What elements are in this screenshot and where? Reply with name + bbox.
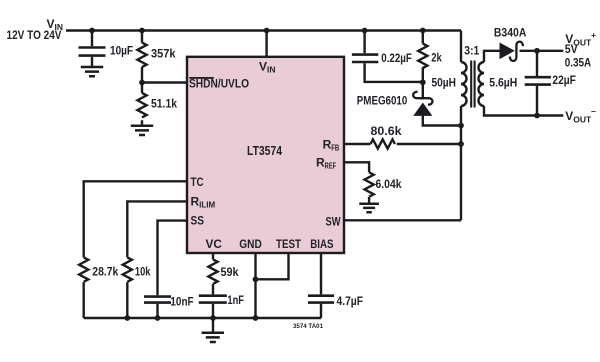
svg-text:PMEG6010: PMEG6010 <box>357 94 408 108</box>
svg-text:GND: GND <box>239 237 262 251</box>
node vout- cap <box>534 113 540 119</box>
resistor R 59k <box>208 259 217 283</box>
node rail 10nF <box>155 315 161 321</box>
capacitor C 0.22uF <box>352 55 378 62</box>
resistor R 357k <box>137 43 146 67</box>
wire secondary top lead <box>484 51 500 62</box>
wire secondary bottom lead <box>484 106 563 116</box>
svg-text:B340A: B340A <box>494 26 527 40</box>
wire 0.22uF branch <box>365 31 423 82</box>
svg-text:0.22µF: 0.22µF <box>381 51 412 65</box>
svg-text:80.6k: 80.6k <box>371 124 402 138</box>
node test-gnd <box>253 276 259 282</box>
svg-text:2k: 2k <box>431 51 442 65</box>
resistor R 2k <box>418 44 427 68</box>
resistor R 51.1k <box>137 93 146 117</box>
node rail 10k <box>124 315 130 321</box>
node rfb-sw <box>458 141 464 147</box>
svg-text:10nF: 10nF <box>170 295 193 309</box>
svg-text:6.04k: 6.04k <box>376 177 402 191</box>
resistor R 6.04k <box>365 172 374 196</box>
node snubber tap <box>362 28 368 34</box>
wire SS cap to rail <box>156 304 158 318</box>
svg-text:0.35A: 0.35A <box>565 55 592 69</box>
wire 2k stubs <box>422 31 424 83</box>
svg-text:28.7k: 28.7k <box>92 265 118 279</box>
ground under 51.1k <box>131 126 153 135</box>
wire RILIM feed <box>127 201 187 318</box>
wire SHDN feed <box>142 81 187 83</box>
wire TC feed <box>84 181 187 318</box>
svg-text:10k: 10k <box>135 265 151 279</box>
wire right bus <box>460 106 462 220</box>
svg-text:50µH: 50µH <box>432 76 457 90</box>
wire bottom rail <box>84 317 321 319</box>
resistor R 28.7k <box>79 257 88 281</box>
svg-text:VC: VC <box>206 237 223 251</box>
wire diode stubs <box>423 82 461 125</box>
node diode-sw <box>458 123 464 129</box>
svg-text:4.7µF: 4.7µF <box>337 294 364 308</box>
node uvlo divider <box>139 80 145 86</box>
wire primary top lead <box>460 31 462 63</box>
svg-text:357k: 357k <box>151 47 176 61</box>
svg-text:3574 TA01: 3574 TA01 <box>293 323 323 330</box>
svg-text:59k: 59k <box>221 265 239 279</box>
wire RREF feed <box>344 162 369 202</box>
wire GND branch <box>254 253 256 318</box>
wire 10uF to ground <box>91 57 93 66</box>
wire BIAS branch <box>320 253 322 318</box>
capacitor C 1nF <box>199 296 227 303</box>
svg-text:12V TO 24V: 12V TO 24V <box>7 28 62 42</box>
svg-text:22µF: 22µF <box>552 73 576 87</box>
wire 357k stubs <box>141 31 143 125</box>
wire 22uF branch <box>536 51 538 116</box>
svg-text:5.6µH: 5.6µH <box>489 76 517 90</box>
svg-text:LT3574: LT3574 <box>247 143 283 158</box>
node snubber bottom <box>420 79 426 85</box>
wire top rail <box>66 29 461 31</box>
svg-text:BIAS: BIAS <box>310 237 333 251</box>
capacitor C 22uF <box>525 77 551 84</box>
resistor R 10k <box>123 257 132 281</box>
wire VIN pin drop <box>265 31 267 57</box>
IC U1 LT3574 body <box>187 57 344 253</box>
wire VC branch <box>212 253 214 318</box>
transformer T1 primary winding 50uH <box>461 62 467 106</box>
svg-text:SS: SS <box>191 214 205 228</box>
node 2k tap <box>420 28 426 34</box>
ground under bottom rail <box>202 333 224 342</box>
capacitor C 10uF <box>79 48 106 56</box>
node 10uF tap <box>89 28 95 34</box>
diode D1 PMEG6010 <box>413 92 432 116</box>
svg-text:1nF: 1nF <box>227 293 244 307</box>
wire TEST branch <box>256 253 289 279</box>
wire RFB feed <box>344 143 461 145</box>
svg-text:SW: SW <box>326 215 342 229</box>
ground under 6.04k <box>359 204 379 213</box>
svg-text:TEST: TEST <box>276 237 302 251</box>
node 357k tap <box>139 28 145 34</box>
diode D2 B340A <box>500 42 523 61</box>
capacitor C 10nF <box>144 297 171 303</box>
resistor R 80.6k <box>371 139 395 148</box>
ground under 10uF <box>81 67 103 76</box>
svg-text:51.1k: 51.1k <box>151 97 177 111</box>
svg-text:10µF: 10µF <box>110 44 133 58</box>
wire SS feed <box>158 221 188 296</box>
svg-text:TC: TC <box>191 175 204 189</box>
node vout+ cap <box>534 48 540 54</box>
node VIN pin tap <box>264 28 270 34</box>
transformer T1 core <box>471 61 474 108</box>
transformer T1 secondary winding 5.6uH <box>479 62 485 106</box>
svg-text:5V: 5V <box>565 42 578 56</box>
capacitor C 4.7uF <box>308 296 334 303</box>
wire SW feed <box>344 219 461 221</box>
node rail vc <box>210 315 216 321</box>
wire VC ground stub <box>212 318 214 332</box>
wire 10uF branch top <box>91 31 93 47</box>
wire diode out to VOUT+ <box>520 50 564 52</box>
svg-text:3:1: 3:1 <box>464 44 479 58</box>
node rail gnd <box>253 315 259 321</box>
